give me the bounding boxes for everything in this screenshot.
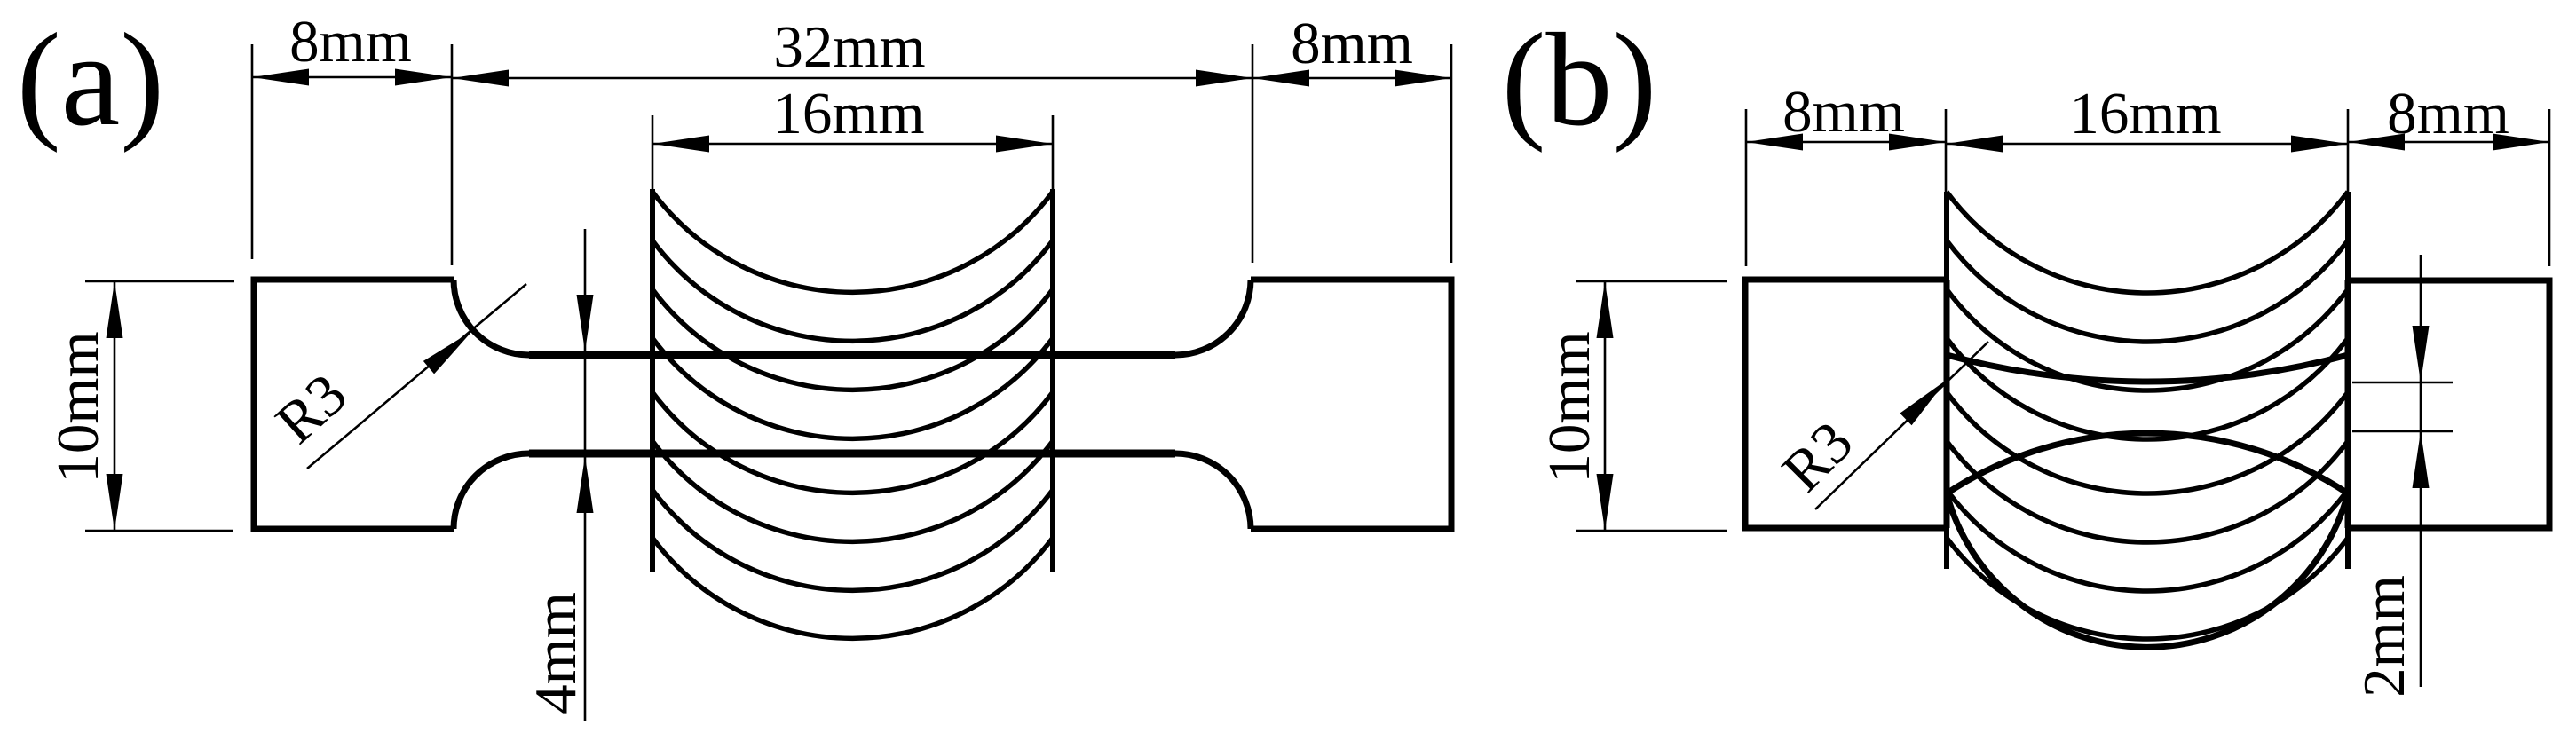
dimension 8mm left (a) bbox=[252, 44, 452, 265]
specimen B right grip bbox=[2348, 280, 2549, 528]
svg-text:8mm: 8mm bbox=[2387, 81, 2509, 146]
dimension 8mm right (a) bbox=[1252, 44, 1451, 263]
deposition layer arcs (a) bbox=[652, 192, 1053, 638]
deposition zone right boundary line (b) bbox=[2345, 192, 2351, 569]
specimen B gauge bottom surface / first bead lens top bbox=[1947, 433, 2348, 493]
deposition zone left boundary line (b) bbox=[1944, 192, 1949, 569]
specimen B left grip bbox=[1745, 280, 1947, 528]
dimension 4mm (a) bbox=[584, 229, 587, 721]
specimen B joint edge left bbox=[1944, 280, 1950, 528]
specimen A top-right fillet R3 bbox=[1175, 280, 1251, 355]
specimen A bottom-left fillet R3 bbox=[454, 453, 529, 529]
specimen A gauge top line bbox=[529, 351, 1175, 359]
svg-text:32mm: 32mm bbox=[773, 14, 925, 80]
svg-text:10mm: 10mm bbox=[45, 331, 111, 483]
specimen B joint edge right bbox=[2345, 280, 2351, 528]
leader arrowhead R3 (b) bbox=[1900, 374, 1952, 425]
first bead lens bottom (b) bbox=[1947, 493, 2348, 647]
dimension 8mm right (b) bbox=[2348, 109, 2549, 266]
specimen A top-left fillet R3 bbox=[454, 280, 529, 355]
leader arrowhead R3 (a) bbox=[423, 325, 478, 374]
specimen A right grip bbox=[1251, 280, 1451, 529]
specimen A bottom-right fillet R3 bbox=[1175, 453, 1251, 529]
svg-text:(a): (a) bbox=[17, 6, 164, 154]
specimen B gauge top surface (curved) bbox=[1947, 355, 2348, 382]
svg-text:8mm: 8mm bbox=[1291, 11, 1413, 76]
svg-text:10mm: 10mm bbox=[1537, 331, 1602, 483]
dimension 32mm (a) bbox=[452, 44, 1252, 263]
svg-text:2mm: 2mm bbox=[2351, 575, 2417, 698]
leader line R3 (b) bbox=[1815, 342, 1988, 509]
svg-text:16mm: 16mm bbox=[2069, 81, 2221, 146]
specimen A left grip bbox=[254, 280, 454, 529]
svg-text:4mm: 4mm bbox=[523, 592, 589, 714]
dimension 10mm (b) bbox=[1576, 281, 1727, 531]
dimension 8mm left (b) bbox=[1746, 109, 1946, 266]
svg-text:8mm: 8mm bbox=[289, 9, 412, 75]
dimension 10mm (a) bbox=[85, 281, 234, 531]
deposition zone right boundary line (a) bbox=[1050, 189, 1055, 572]
leader line R3 (a) bbox=[307, 284, 526, 469]
deposition zone left boundary line (a) bbox=[650, 189, 655, 572]
svg-text:(b): (b) bbox=[1502, 6, 1657, 154]
svg-text:8mm: 8mm bbox=[1782, 79, 1905, 145]
dimension 16mm (b) bbox=[1946, 109, 2348, 192]
svg-text:16mm: 16mm bbox=[772, 81, 924, 146]
dimension 2mm (b) bbox=[2352, 255, 2453, 687]
deposition layer arcs (b) bbox=[1947, 192, 2348, 639]
dimension 16mm (a) bbox=[652, 115, 1053, 191]
specimen A gauge bottom line bbox=[529, 450, 1175, 458]
